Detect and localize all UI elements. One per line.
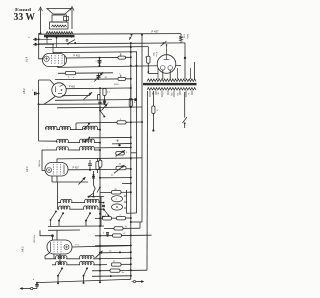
wire bus y66	[58, 65, 182, 67]
svg-text:AK 2: AK 2	[21, 246, 25, 252]
transformer tap tick 1	[46, 37, 48, 44]
svg-text:P 437: P 437	[152, 30, 159, 34]
junction dot L1 x142	[141, 34, 143, 36]
wire x147 vertical	[146, 91, 149, 270]
trimmer capacitor	[94, 72, 107, 81]
wire AF3 anode	[68, 169, 116, 171]
wire y152 corner x136	[131, 152, 137, 154]
svg-text:AF 3: AF 3	[25, 166, 29, 172]
lamp branch	[152, 91, 159, 132]
switch S11	[57, 267, 63, 276]
transformer bottom leads	[150, 91, 192, 98]
wire x140 link	[139, 222, 141, 228]
wire x158 stub	[157, 68, 159, 79]
dial pointer arrow	[39, 7, 43, 35]
tube AF3	[45, 163, 68, 177]
wire x194 right	[194, 62, 196, 79]
power transformer top winding	[147, 79, 196, 82]
wire y228	[104, 227, 140, 229]
coil L4 row3	[42, 147, 100, 150]
resistor R16 anode	[118, 52, 132, 59]
tube AL4	[43, 54, 67, 67]
wire rectifier top to switch	[166, 45, 168, 55]
wire AF3 top pin	[57, 158, 142, 163]
wire box verticals	[76, 123, 100, 130]
svg-text:33 W: 33 W	[14, 12, 36, 23]
capacitor C6	[97, 95, 101, 104]
wire mid bus x130	[130, 43, 132, 279]
resistor R14	[113, 233, 127, 237]
resistor R13	[114, 226, 128, 230]
coil L3 row2	[56, 139, 100, 142]
resistor R15	[110, 269, 125, 274]
svg-text:AL 4: AL 4	[25, 56, 29, 62]
capacitor C9	[92, 174, 95, 178]
junction dots y177	[99, 177, 132, 179]
wire row2 left lead	[39, 140, 58, 142]
wire y147	[95, 146, 131, 149]
wire y213 link	[127, 212, 137, 214]
wire osc vertical x93	[94, 171, 96, 197]
capacitor C3	[98, 57, 102, 66]
capacitor C5	[103, 99, 110, 105]
wire y122	[76, 122, 142, 123]
arrow tuning bottom	[96, 251, 103, 258]
resistor R2	[145, 47, 159, 74]
switch S9	[58, 212, 64, 221]
svg-text:P 403: P 403	[69, 86, 76, 88]
wire y138	[91, 136, 131, 138]
wire y177	[100, 177, 131, 179]
svg-text:220: 220	[170, 93, 172, 96]
resistor R3 below transformer	[129, 84, 136, 107]
dot x130 top	[130, 42, 132, 53]
coil L7 ant row1	[45, 255, 104, 258]
wire y192	[100, 191, 131, 193]
capacitor C4	[32, 90, 40, 95]
capacitor square y100	[131, 98, 137, 101]
switch S4	[99, 109, 105, 117]
wire jog to x38	[39, 34, 44, 59]
wire y143	[112, 143, 131, 145]
variable resistor R8a	[116, 150, 129, 156]
wire bus y104	[39, 103, 105, 105]
resistor R11	[103, 215, 112, 220]
coil L6 osc row2	[58, 206, 105, 209]
wire y222 link	[131, 221, 142, 223]
junction dots y122	[130, 121, 143, 123]
transformer labels	[151, 93, 189, 96]
svg-text:1: 1	[116, 140, 117, 142]
wire row1 to bus	[104, 257, 131, 259]
svg-text:5: 5	[119, 52, 120, 54]
resistor R9	[112, 189, 122, 194]
junction dots coils	[99, 129, 101, 151]
junction dots bottom	[57, 281, 101, 284]
coil L1 row1	[45, 126, 76, 129]
svg-text:AB 2: AB 2	[22, 88, 26, 94]
wire AL4 anode	[66, 56, 131, 59]
svg-text:22.: 22.	[109, 251, 112, 253]
switch S2	[161, 41, 168, 46]
switch arrow S3	[102, 104, 108, 111]
power transformer bottom winding	[147, 88, 196, 90]
speaker LS cone	[47, 9, 71, 15]
switch S6	[84, 137, 91, 143]
resistor R6	[96, 158, 99, 173]
wire AB2 anode	[66, 86, 131, 88]
coil L5 osc row1	[58, 199, 105, 202]
rectifier tube AZ1	[157, 55, 176, 74]
wire mid bus x100	[99, 87, 101, 283]
junction dots y107	[99, 106, 132, 108]
tube AB2	[52, 83, 66, 97]
svg-text:100/125v: 100/125v	[34, 235, 36, 243]
switch S17 osc third	[50, 211, 57, 227]
wire x190 stub	[190, 68, 192, 79]
wire ant drops	[58, 276, 84, 283]
wire osc vertical x101	[100, 197, 102, 227]
svg-text:30: 30	[145, 56, 147, 58]
resistor R5	[117, 119, 126, 124]
wire y100	[55, 99, 131, 102]
svg-text:4v: 4v	[157, 93, 159, 95]
svg-text:W-Dr: W-Dr	[186, 34, 188, 39]
capacitor C11	[103, 233, 109, 237]
wire y230	[48, 229, 80, 231]
resistor R1	[66, 71, 76, 78]
electrolytic capacitor E2	[112, 204, 123, 210]
wire AF3 cathode down	[57, 182, 59, 209]
wire top bus L4	[53, 51, 137, 54]
wire AK2 top pin	[56, 230, 58, 240]
wire AK2 bottom pins	[54, 254, 60, 265]
switch S16 output	[66, 37, 76, 45]
switch S12	[83, 267, 89, 276]
wire top bus L1	[39, 33, 181, 36]
grid cap	[40, 230, 54, 240]
wire y245	[95, 244, 131, 246]
capacitor C8	[88, 160, 92, 171]
wire y95 arrow	[62, 92, 92, 99]
wire right edge x185	[184, 43, 186, 79]
svg-text:5: 5	[119, 73, 120, 75]
wire AB2 top pin	[39, 80, 55, 85]
speaker magnet box	[52, 15, 69, 22]
capacitor blob x185	[184, 57, 186, 59]
switch S13 mains	[183, 92, 188, 128]
switch S14 on bus	[97, 186, 101, 192]
wire AL4 cathode pin	[57, 66, 59, 67]
resistor R17	[118, 73, 132, 80]
switch S1	[129, 34, 133, 40]
svg-text:180v Ua: 180v Ua	[39, 159, 41, 167]
output transformer winding	[46, 32, 73, 34]
switch S5	[84, 123, 91, 130]
tube AK2	[47, 240, 72, 254]
electrolytic capacitor E1	[112, 196, 123, 202]
output transformer core	[44, 35, 75, 37]
wire AK2 anode	[72, 246, 131, 247]
wire AK2 bottom curve	[45, 253, 50, 259]
capacitor C1 square	[29, 37, 53, 41]
wire bus x137	[136, 52, 138, 213]
svg-text:P 402: P 402	[74, 55, 81, 58]
wire y252	[100, 251, 131, 254]
arrow tuning mid	[79, 177, 86, 185]
wire AF3 bottom pins	[52, 176, 88, 182]
switch S8	[88, 193, 95, 198]
switch S10	[85, 212, 91, 221]
wire y73	[58, 72, 113, 75]
dot y104 left	[38, 103, 40, 105]
power transformer core	[143, 83, 197, 85]
antenna input terminal	[20, 283, 38, 290]
junction dots y66	[99, 65, 138, 67]
capacitor C10	[33, 279, 39, 286]
svg-text:0,3 m: 0,3 m	[155, 52, 157, 57]
variable resistor R8	[114, 165, 132, 173]
coil L8 ant row2	[52, 261, 107, 264]
capacitor C7	[116, 140, 121, 147]
svg-text:7552: 7552	[152, 52, 154, 56]
wire y276	[92, 275, 132, 277]
wire x53 tap	[52, 43, 54, 53]
voice coil box	[50, 22, 69, 29]
svg-text:2: 2	[162, 93, 164, 94]
label 22 row	[109, 251, 121, 254]
wire y218	[95, 217, 131, 219]
wire x177 stub	[177, 68, 179, 79]
wire left vertical mid	[38, 80, 40, 141]
resistor R4	[103, 89, 111, 105]
choke W-Dr	[179, 34, 188, 43]
transformer tap tick 2	[56, 37, 58, 48]
junction dots right bus	[99, 87, 132, 272]
wire osc top line	[88, 196, 104, 198]
wire osc bus y226	[48, 221, 104, 227]
wire bus x142	[141, 35, 143, 222]
resistor R7 on bus	[99, 158, 102, 168]
wire y183 stub	[122, 182, 131, 184]
wire y235	[95, 234, 152, 237]
output terminal	[132, 280, 145, 283]
resistor R10 row2	[112, 261, 131, 266]
wire stub bus x126	[124, 190, 127, 213]
wire AB2 bottom pin	[44, 97, 55, 105]
resistor R12	[117, 215, 126, 220]
wire row3 left corner	[42, 150, 46, 171]
svg-text:4v: 4v	[151, 93, 153, 95]
wire y79	[55, 78, 131, 81]
wire y107 long	[57, 106, 142, 109]
wire bottom bus	[37, 279, 131, 282]
wire top bus L3	[45, 47, 148, 48]
capacitor C2 square	[33, 43, 52, 46]
svg-text:110: 110	[176, 93, 178, 96]
wire y270	[92, 269, 147, 272]
coil L2 row1 right	[76, 126, 100, 129]
antenna mast	[70, 7, 74, 30]
switch S15	[103, 209, 109, 217]
wire rectifier pins	[163, 70, 170, 79]
capacitor marks osc right	[102, 202, 105, 218]
svg-text:P 407: P 407	[73, 166, 80, 169]
wire top bus L2	[39, 43, 185, 44]
